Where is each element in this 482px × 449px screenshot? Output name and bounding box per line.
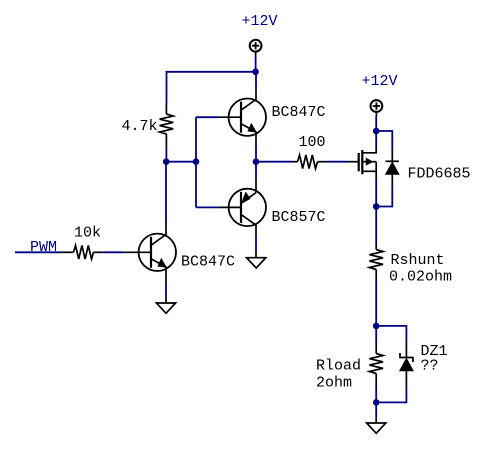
zener diode DZ1 [400, 342, 413, 386]
power symbol P1 +12V [250, 40, 262, 57]
junction below 4.7k [163, 158, 170, 165]
wire junction row [166, 161, 196, 163]
wire output node to 100 resistor [256, 161, 292, 163]
ground under Q3 [247, 251, 266, 268]
resistor R 100 [292, 155, 328, 169]
wire junction to Rload [375, 326, 377, 343]
wire junction to ground [375, 402, 377, 418]
svg-text:FDD6685: FDD6685 [408, 166, 471, 183]
wire junction to Q2 collector [255, 72, 257, 88]
svg-text:BC847C: BC847C [181, 254, 235, 271]
wire MOSFET source down to junction [375, 179, 377, 207]
svg-text:0.02ohm: 0.02ohm [389, 268, 452, 285]
junction load bottom [373, 399, 380, 406]
svg-text:2ohm: 2ohm [316, 375, 352, 392]
wire junction to Rshunt [375, 207, 377, 244]
resistor R 10k [61, 246, 103, 260]
junction output node [253, 158, 260, 165]
resistor Rload 2ohm [369, 343, 383, 387]
diode D1 (body diode) [386, 150, 399, 186]
wire Rshunt to load junction [375, 280, 377, 326]
wire to Q3 base [196, 206, 218, 208]
wire Rload to bottom junction [375, 386, 377, 402]
wire 4.7k bottom to junction [165, 147, 167, 162]
svg-text:4.7k: 4.7k [122, 118, 158, 135]
svg-text:+12V: +12V [362, 73, 398, 90]
wire base tie rail [195, 117, 197, 207]
wire top-left rail [167, 72, 256, 103]
wire zener branch top [376, 326, 406, 342]
wire Q1 emitter [165, 283, 167, 298]
junction load top [373, 323, 380, 330]
junction MOSFET top [373, 128, 380, 135]
wire body-diode branch bottom [376, 186, 392, 207]
wire P1 to top junction [255, 56, 257, 71]
transistor Q3 BC857C (PNP) [218, 179, 266, 236]
svg-text:10k: 10k [74, 225, 101, 242]
transistor Q2 BC847C (top NPN) [218, 88, 266, 145]
wire Q2 emitter to output node [255, 145, 257, 162]
transistor Q1 BC847C (left NPN) [123, 222, 176, 283]
svg-text:PWM: PWM [30, 239, 57, 256]
wire Q3 collector to ground [255, 235, 257, 251]
MOSFET U1 FDD6685 [348, 148, 377, 179]
wire output node to Q3 emitter [255, 162, 257, 179]
wire zener branch bottom [376, 386, 406, 402]
ground under Q1 [156, 298, 175, 313]
wire body-diode branch top [376, 131, 392, 150]
wire junction to MOSFET [375, 131, 377, 148]
svg-text:BC847C: BC847C [272, 104, 326, 121]
wire 100 to MOSFET gate [328, 161, 348, 163]
junction top rail [252, 69, 259, 76]
junction MOSFET bottom [373, 203, 380, 210]
power symbol P2 +12V [371, 100, 383, 116]
wire Q1 collector up to node [165, 162, 167, 222]
svg-text:100: 100 [299, 134, 326, 151]
resistor R 4.7k [160, 103, 174, 147]
wire P2 to drain junction [375, 116, 377, 131]
svg-text:+12V: +12V [242, 13, 278, 30]
ground bottom right [367, 418, 386, 433]
svg-text:BC857C: BC857C [272, 209, 326, 226]
wire PWM input [15, 251, 61, 253]
svg-text:Rload: Rload [316, 358, 361, 375]
wire to Q2 base [196, 116, 218, 118]
resistor Rshunt 0.02ohm [369, 243, 383, 280]
wire 10k to Q1 base [103, 251, 123, 253]
junction base tie [193, 158, 200, 165]
svg-text:??: ?? [421, 358, 439, 375]
svg-text:Rshunt: Rshunt [391, 252, 445, 269]
